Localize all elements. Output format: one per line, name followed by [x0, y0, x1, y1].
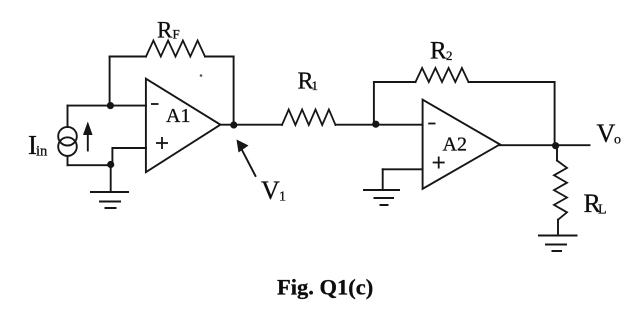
junction dot: A2 inverting node [372, 121, 379, 128]
svg-text:o: o [614, 133, 621, 148]
wire: R1 to A2 inverting input [336, 124, 423, 126]
wire: RF loop top-right horizontal [205, 56, 234, 58]
svg-text:A2: A2 [443, 134, 467, 156]
arrowhead: current source arrow [83, 122, 93, 136]
wire: current source top lead [67, 106, 69, 127]
op-amp A2 triangle [423, 100, 500, 189]
wire: jog up to A1 non-inverting input [111, 148, 113, 165]
resistor R2 [416, 68, 469, 82]
wire: A1 output to R1 [220, 124, 282, 126]
junction dot: bottom rail node [107, 161, 114, 168]
junction dot: Vo node [552, 142, 559, 149]
svg-text:F: F [173, 27, 180, 42]
wire: R2 loop top-left horizontal [374, 81, 416, 83]
svg-text:in: in [36, 144, 48, 160]
arrowhead: V1 pointer [237, 140, 249, 153]
resistor R1 [282, 110, 336, 126]
svg-text:R: R [430, 38, 447, 65]
wire: current source bottom lead [67, 156, 69, 165]
resistor RF [146, 41, 205, 57]
wire: RL bottom lead [557, 220, 559, 234]
ground 2 (A2 non-inverting) [364, 190, 399, 205]
svg-text:A1: A1 [166, 105, 190, 127]
svg-text:2: 2 [446, 48, 453, 63]
wire: RL top lead [556, 146, 558, 161]
wire: A2 output rail to Vo [500, 144, 590, 146]
A1 plus sign [156, 142, 168, 144]
op-amp A1 triangle [146, 79, 221, 173]
A2 plus sign [433, 162, 445, 164]
junction dot: A1 inverting node [107, 102, 114, 109]
svg-text:Fig. Q1(c): Fig. Q1(c) [277, 275, 373, 300]
arrow: V1 pointer shaft [242, 150, 256, 176]
speck [200, 74, 203, 77]
wire: drop to ground 2 [382, 169, 384, 190]
wire: drop to ground 1 [110, 165, 112, 193]
wire: R2 loop top-right horizontal [469, 81, 555, 83]
junction dot: V1 node [230, 121, 237, 128]
svg-text:R: R [157, 18, 173, 43]
wire: A1 inverting input rail [68, 105, 147, 107]
ground 1 (left) [91, 192, 128, 208]
arrow: current direction (up) [87, 133, 89, 151]
A2 minus sign [428, 123, 435, 125]
wire: A2 non-inverting input [383, 168, 423, 170]
wire: RF loop right vertical to A1 output [233, 57, 235, 126]
svg-text:V: V [261, 176, 280, 205]
resistor RL (vertical) [554, 161, 567, 220]
wire: RF loop left vertical [109, 57, 111, 106]
wire: R2 loop left vertical [373, 82, 375, 124]
svg-text:V: V [597, 119, 616, 148]
svg-text:L: L [598, 203, 607, 218]
wire: A1 non-inverting input [112, 147, 146, 149]
svg-text:1: 1 [312, 78, 319, 93]
wire: bottom rail from source to node [68, 164, 113, 166]
wire: R2 loop right vertical to output node [554, 82, 556, 146]
current source I_in (two overlapping circles) [58, 127, 77, 146]
svg-text:1: 1 [279, 190, 286, 205]
ground 3 (under RL) [539, 236, 577, 252]
A1 minus sign [151, 103, 159, 105]
wire: RF loop top-left horizontal [110, 56, 146, 58]
